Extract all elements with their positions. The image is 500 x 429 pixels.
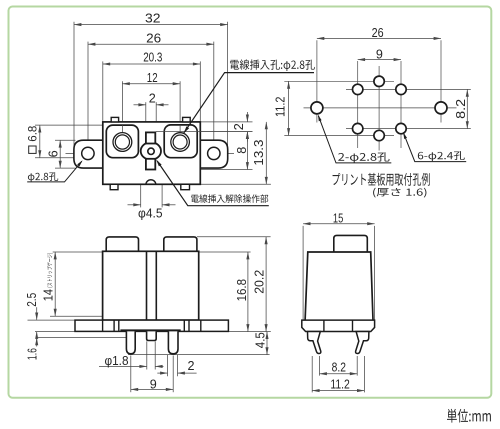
right wire insertion hole xyxy=(171,133,190,152)
dimension 6 xyxy=(59,140,61,168)
right pin (front) xyxy=(168,331,178,353)
release mechanism barrel xyxy=(141,142,161,160)
leader: wire release operation part label xyxy=(157,161,269,206)
dimension phi4.5 xyxy=(128,204,141,206)
left bent pin (side) xyxy=(308,332,321,354)
top tabs xyxy=(111,117,118,122)
svg-text:11.2: 11.2 xyxy=(274,97,288,118)
leader: wire insertion hole label xyxy=(183,73,314,134)
svg-text:9: 9 xyxy=(376,47,383,61)
phi4.5 extension lines xyxy=(140,154,142,207)
extension lines xyxy=(53,251,103,253)
dimension 11.2 xyxy=(288,81,290,135)
svg-text:φ4.5: φ4.5 xyxy=(138,206,163,220)
svg-text:6: 6 xyxy=(47,150,61,157)
extension lines xyxy=(302,226,304,320)
label: strip gauge (rotated) xyxy=(47,253,53,287)
right ear hole (phi2.8) xyxy=(208,147,220,159)
dimension 2.5 xyxy=(36,307,38,320)
ear hole centerlines xyxy=(66,152,107,154)
leader: phi2.8 hole label (ears) xyxy=(27,161,82,182)
dimension 20.3 xyxy=(103,63,201,65)
center slot lines xyxy=(146,251,148,320)
svg-text:16.8: 16.8 xyxy=(235,279,249,301)
dimension 32 xyxy=(74,24,228,26)
dimension 4.5 xyxy=(266,332,268,355)
release top tab xyxy=(146,132,155,143)
svg-text:11.2: 11.2 xyxy=(330,377,350,391)
body (side, tapered) xyxy=(305,252,373,320)
dimension 15 xyxy=(303,223,375,225)
centerlines xyxy=(304,107,457,109)
release center hole xyxy=(148,148,154,154)
svg-text:32: 32 xyxy=(145,12,161,26)
footer: unit mm xyxy=(447,409,491,423)
right mounting ear xyxy=(199,140,228,168)
right boss xyxy=(164,125,197,158)
label: wire insertion hole phi2.8 xyxy=(230,59,315,71)
label: wire release operation part xyxy=(191,194,268,203)
release bottom tab xyxy=(146,159,155,170)
dimension 11.2 (pin span) xyxy=(312,390,364,392)
svg-text:2: 2 xyxy=(232,123,246,130)
svg-text:8.2: 8.2 xyxy=(332,360,346,374)
left phi2.8 mounting hole xyxy=(311,102,323,114)
leader: 2-phi2.8 holes xyxy=(318,116,391,163)
right cap xyxy=(164,237,197,251)
svg-text:14: 14 xyxy=(41,289,55,301)
label: 2-phi2.8 holes xyxy=(338,152,389,163)
bottom notch semicircle xyxy=(146,180,156,185)
svg-text:6.8: 6.8 xyxy=(25,125,39,141)
dimension 9 (hole spacing) xyxy=(358,59,401,61)
body front xyxy=(103,251,199,320)
svg-text:26: 26 xyxy=(146,31,161,45)
left boss (square 6.8) xyxy=(106,125,138,158)
svg-text:13.3: 13.3 xyxy=(252,140,266,166)
dimension 8.2 xyxy=(466,89,468,128)
left cap xyxy=(106,237,138,251)
left pin (front) xyxy=(126,331,135,353)
dimension 14 strip gauge xyxy=(54,252,56,316)
dimension 13.3 xyxy=(265,122,267,184)
right phi2.8 mounting hole xyxy=(435,102,447,114)
bottom tabs xyxy=(110,184,118,189)
svg-text:8: 8 xyxy=(235,147,249,154)
dimension square 6.8 xyxy=(39,125,41,158)
svg-text:20.3: 20.3 xyxy=(143,51,162,65)
svg-text:26: 26 xyxy=(372,26,384,40)
label: 6-phi2.4 holes xyxy=(418,151,465,161)
svg-text:4.5: 4.5 xyxy=(254,332,268,348)
body outline xyxy=(103,122,201,184)
dimension 9 (pin spacing) xyxy=(131,388,173,390)
svg-text:φ1.8: φ1.8 xyxy=(105,354,129,368)
base step xyxy=(120,329,180,331)
dimension 8 xyxy=(246,132,248,170)
dimension 2 (right pin width) xyxy=(157,372,167,374)
subtitle: thickness 1.6 xyxy=(373,188,426,198)
dimension 8.2 (pin span) xyxy=(320,373,358,375)
dimension 26 xyxy=(88,43,214,45)
six phi2.4 holes xyxy=(353,84,363,94)
svg-text:15: 15 xyxy=(333,212,343,226)
cap (side) xyxy=(334,235,368,252)
middle pin phi1.8 (front) xyxy=(147,331,157,340)
extension lines, top dims xyxy=(73,22,75,147)
svg-text:20.2: 20.2 xyxy=(252,270,266,294)
dimension 2 (release tab width) xyxy=(134,104,146,106)
title: example of PCB mounting holes xyxy=(333,173,430,186)
svg-text:1.6: 1.6 xyxy=(26,348,40,360)
svg-text:2.5: 2.5 xyxy=(25,293,39,307)
dimension 26 (hole spacing) xyxy=(317,37,441,39)
svg-text:12: 12 xyxy=(147,71,158,85)
dimension 2 (right side) xyxy=(246,112,248,122)
flange (side, chamfered) xyxy=(302,320,375,331)
leader: 6-phi2.4 holes xyxy=(404,134,467,162)
flange xyxy=(75,320,228,331)
extension lines, left-side dims xyxy=(35,124,107,126)
left mounting ear xyxy=(74,140,104,168)
right bent pin (side) xyxy=(356,332,369,354)
left ear hole (phi2.8) xyxy=(82,147,94,159)
label: phi2.8 hole xyxy=(28,172,58,182)
left wire insertion hole xyxy=(113,133,132,152)
dimension 20.2 xyxy=(265,237,267,332)
dimension 12 xyxy=(122,83,180,85)
dimension 16.8 xyxy=(247,252,249,332)
dimension 1.6 xyxy=(36,338,38,347)
flange division lines xyxy=(102,320,104,331)
dimension phi1.8 xyxy=(99,365,147,367)
svg-text:2: 2 xyxy=(187,359,194,373)
svg-text:8.2: 8.2 xyxy=(454,99,468,119)
svg-text:2: 2 xyxy=(149,92,156,106)
extension lines, right-side dims xyxy=(200,121,252,123)
svg-text:9: 9 xyxy=(150,377,157,391)
rotated label "square 6.8" xyxy=(25,125,39,153)
